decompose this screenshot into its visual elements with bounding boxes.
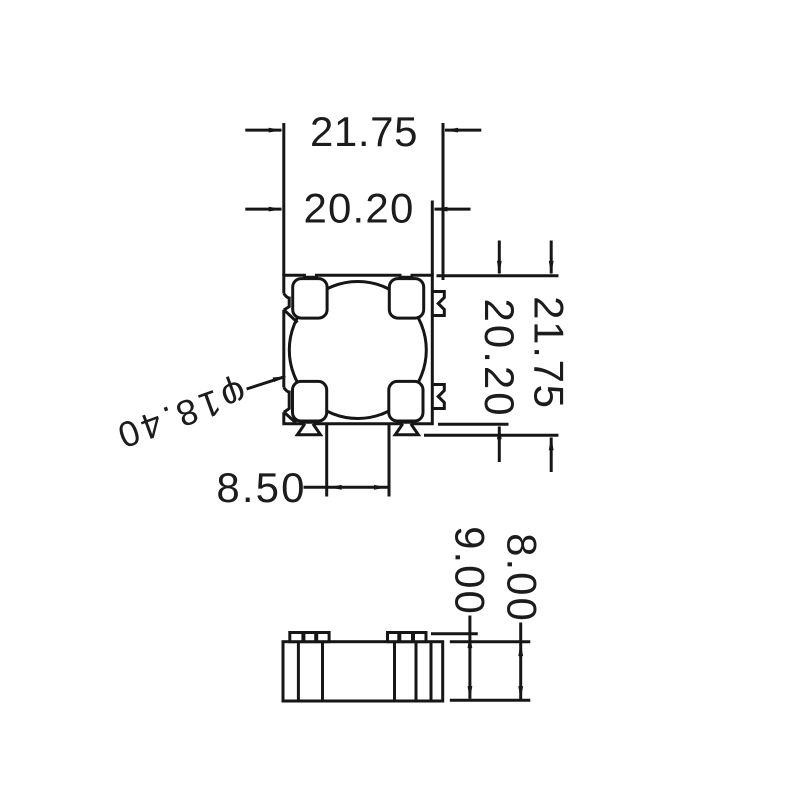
dim 9.00: dimension line and arrows — [468, 616, 471, 699]
svg-text:φ18.40: φ18.40 — [109, 372, 252, 458]
dim 21.75 right: bottom arrow — [550, 438, 553, 473]
winding circle — [289, 282, 426, 419]
side view lead line 2 — [321, 642, 324, 701]
pad bottom-left — [293, 381, 327, 421]
side view left terminal tab — [290, 633, 329, 642]
left notch upper — [284, 294, 289, 311]
side view right terminal tab — [388, 633, 427, 642]
dim 8.50: left extension line — [325, 425, 328, 497]
dim 20.20 top: right extension line — [431, 201, 434, 277]
pad top-left — [293, 279, 327, 319]
svg-text:21.75: 21.75 — [310, 108, 418, 155]
svg-text:8.00: 8.00 — [498, 533, 545, 623]
body outline top view — [284, 275, 433, 424]
dim 20.20 right: bottom extension line — [438, 423, 509, 426]
dims bottom extension line — [450, 699, 531, 702]
dim 20.20 right: top arrow — [498, 241, 501, 274]
left notch upper diagonal to circle — [284, 310, 297, 322]
left notch lower diagonal to circle — [284, 412, 296, 423]
side view lead line 4 — [415, 642, 418, 701]
foot left — [297, 424, 320, 435]
svg-text:20.20: 20.20 — [476, 299, 523, 419]
dim 20.20 top: right arrow — [435, 208, 471, 211]
dim 8.50: dimension line — [304, 486, 390, 489]
dim 8.50: right extension line — [388, 425, 391, 497]
svg-text:9.00: 9.00 — [446, 526, 493, 616]
side view lead line 3 — [393, 642, 396, 701]
dia 18.40 leader line — [247, 377, 285, 389]
dim 21.75 top: left extension line — [282, 123, 285, 276]
foot right — [395, 424, 418, 435]
dim 8.00: dimension line and arrows — [519, 623, 522, 700]
right tab upper — [432, 292, 444, 316]
side view lead line 5 — [430, 642, 433, 701]
dim 8.50: left arrow — [328, 485, 342, 490]
side view lead line 1 — [297, 642, 300, 701]
dim 21.75 top: right arrow — [445, 129, 481, 132]
dim right side: top extension line — [437, 274, 559, 277]
dim 9.00: top extension line — [431, 632, 478, 635]
dim 8.00: top extension line — [450, 640, 531, 643]
side view body — [283, 642, 443, 701]
dim 20.20 right: bottom arrow — [498, 427, 501, 463]
svg-text:20.20: 20.20 — [303, 184, 414, 231]
svg-text:21.75: 21.75 — [526, 296, 573, 410]
dim 20.20 top: left arrow — [245, 208, 281, 211]
dim 21.75 top: right extension line — [442, 123, 445, 280]
dim 21.75 top: left arrow — [245, 129, 281, 132]
pad bottom-right — [389, 381, 423, 421]
body left edge middle segment — [282, 310, 285, 388]
right tab lower — [432, 385, 444, 409]
dim 21.75 right: top arrow — [550, 241, 553, 274]
pad top-right — [389, 279, 423, 319]
svg-text:8.50: 8.50 — [216, 464, 306, 511]
dim 8.50: right arrow — [374, 485, 388, 490]
dim 21.75 right: bottom extension line — [424, 434, 559, 437]
left notch lower — [284, 388, 289, 413]
